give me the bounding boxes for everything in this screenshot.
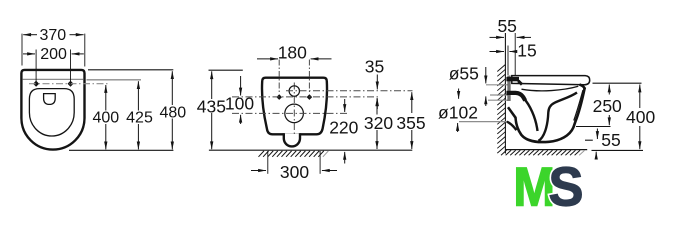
outlet lower edge: [507, 122, 517, 131]
pipe line o102 top: [488, 99, 508, 101]
svg-text:220: 220: [329, 118, 358, 138]
toilet back face double line: [507, 76, 509, 102]
dimension 100: [240, 76, 242, 96]
dish rim line: [522, 86, 579, 91]
small circle: [289, 86, 299, 96]
svg-text:400: 400: [626, 107, 655, 127]
fixing hole right: [307, 94, 313, 100]
large circle line dash-dot: [232, 112, 348, 114]
floor line right: [505, 149, 587, 151]
outlet U: [284, 133, 300, 146]
front inner line: [574, 90, 583, 121]
trap inner back diagonal: [524, 99, 538, 132]
svg-text:200: 200: [40, 46, 67, 63]
fixing hole left: [33, 81, 39, 87]
dimension 370: [23, 34, 37, 36]
bowl bottom ref line: [585, 139, 593, 141]
pipe line o55 top: [486, 84, 508, 86]
seat profile: [512, 76, 590, 85]
front body outline: [262, 78, 327, 135]
dimension 355: [411, 92, 413, 113]
fixing hole left: [276, 94, 282, 100]
svg-text:55: 55: [601, 130, 620, 150]
dimension 180: [257, 58, 278, 60]
dimension o102: [458, 89, 460, 99]
floor hatching middle: [259, 151, 329, 157]
rim back band: [506, 93, 525, 101]
reference line bottom: [69, 149, 173, 151]
reference line top (480): [88, 69, 173, 71]
dimension 55 top: [490, 36, 505, 38]
holes line dash-dot: [232, 96, 381, 98]
dimension 35: [376, 75, 378, 90]
svg-text:15: 15: [517, 41, 536, 61]
vertical centerline: [293, 83, 295, 137]
svg-text:ø55: ø55: [449, 63, 479, 83]
svg-text:425: 425: [126, 110, 153, 127]
dimension 220: [344, 99, 346, 112]
dimension 250: [608, 85, 610, 95]
svg-text:355: 355: [396, 113, 425, 133]
svg-text:320: 320: [364, 113, 393, 133]
floor line middle: [209, 149, 412, 151]
svg-text:480: 480: [159, 105, 186, 122]
dimension 400 right: [639, 85, 641, 109]
bowl outer profile: [508, 88, 585, 143]
dimension 370 extension lines: [21, 34, 23, 66]
dimension 300: [251, 170, 266, 172]
svg-text:S: S: [549, 157, 584, 218]
dimension 435 reference line: [209, 69, 243, 71]
dimension 200: [23, 53, 35, 55]
svg-text:ø102: ø102: [438, 102, 478, 122]
extension line 15: [507, 46, 509, 76]
seat nose: [580, 85, 585, 90]
dimension o55: [485, 67, 487, 83]
svg-text:435: 435: [197, 96, 226, 116]
ref line 250 bottom: [576, 126, 611, 128]
dimension 55 bottom: [596, 129, 598, 140]
plan body outline: [21, 70, 84, 150]
floor ref segment right: [592, 149, 644, 151]
pipe line o102 bottom: [459, 121, 508, 123]
svg-text:55: 55: [497, 16, 516, 36]
supply elbow: [506, 77, 519, 81]
wall face line: [504, 33, 506, 154]
dimension 180 extension lines: [278, 60, 280, 94]
dimension 300 extension lines: [267, 151, 269, 174]
dimension 320: [376, 98, 378, 114]
svg-text:100: 100: [225, 94, 254, 114]
dimension 480: [171, 71, 173, 105]
fixing hole right: [68, 81, 74, 87]
svg-text:370: 370: [39, 27, 66, 44]
seat opening oval: [29, 89, 74, 136]
small circle line dash-dot: [286, 90, 413, 92]
seat ref line right: [593, 82, 642, 84]
extension line 55/15 right: [514, 33, 516, 76]
svg-text:35: 35: [365, 57, 384, 77]
holes centerline dash-dot: [29, 83, 110, 85]
trap weir line: [539, 93, 578, 141]
dimension 400: [105, 85, 107, 111]
large circle: [285, 104, 304, 123]
reference line seat (425): [87, 79, 142, 81]
dimension 15: [490, 51, 505, 53]
svg-text:400: 400: [92, 110, 119, 127]
pipe line o55 bottom: [490, 94, 508, 96]
dimension 435: [211, 71, 213, 99]
dimension 200 extension lines: [35, 50, 37, 85]
svg-text:250: 250: [593, 96, 622, 116]
wall hatching: [497, 65, 505, 154]
flush cup: [44, 94, 56, 105]
floor hatching right: [501, 150, 585, 155]
seat hinge line: [23, 78, 84, 80]
supply elbow step: [518, 81, 522, 85]
svg-text:180: 180: [278, 42, 307, 62]
svg-text:300: 300: [280, 162, 309, 182]
dimension 425: [137, 81, 139, 110]
